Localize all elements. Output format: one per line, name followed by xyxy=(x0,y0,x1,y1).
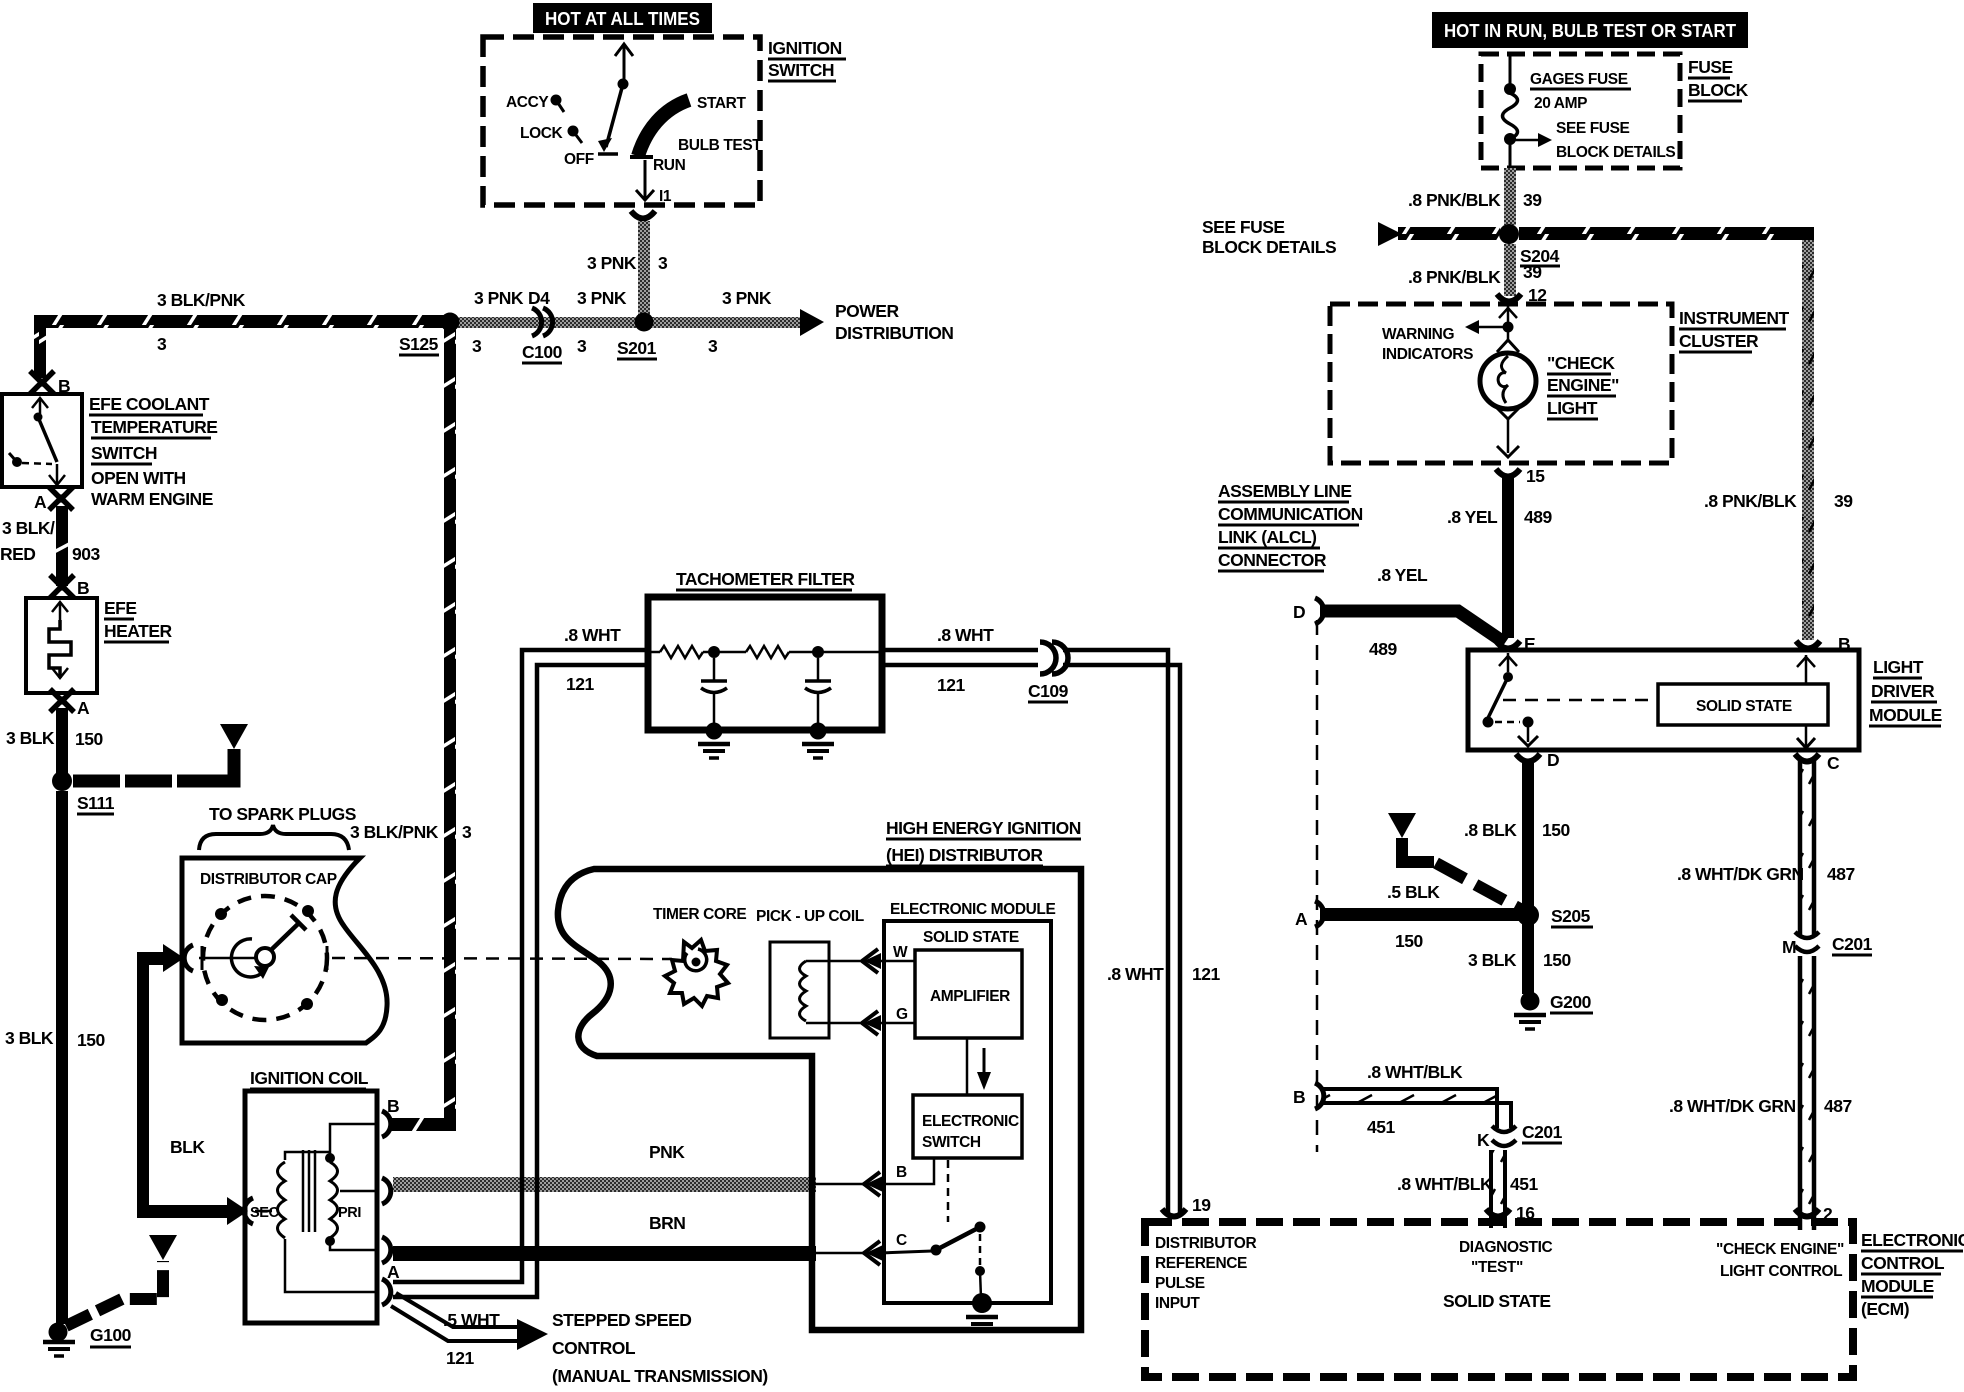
svg-text:B: B xyxy=(1293,1087,1305,1107)
svg-text:121: 121 xyxy=(937,675,965,695)
distributor cap xyxy=(182,858,387,1043)
svg-text:D4: D4 xyxy=(528,288,550,308)
ALCL dashed line xyxy=(1316,620,1319,1152)
connector I1 xyxy=(631,211,655,219)
wire 3 PNK ignition switch to S201 xyxy=(587,221,668,317)
svg-text:.8 YEL: .8 YEL xyxy=(1377,565,1428,585)
electronic switch xyxy=(913,1095,1022,1158)
svg-text:.8 WHT/BLK: .8 WHT/BLK xyxy=(1367,1062,1463,1082)
svg-text:.8 WHT/DK GRN: .8 WHT/DK GRN xyxy=(1677,864,1804,884)
ground G100 xyxy=(43,1323,132,1357)
wire .5 WHT stepped speed control xyxy=(391,1293,768,1386)
node S125 xyxy=(399,313,460,356)
svg-text:G100: G100 xyxy=(90,1325,132,1345)
terminal B ALCL and .8 WHT/BLK wire xyxy=(1293,1062,1511,1137)
svg-text:PNK: PNK xyxy=(649,1142,685,1162)
svg-text:BLOCK DETAILS: BLOCK DETAILS xyxy=(1556,144,1675,161)
connector C light driver xyxy=(1795,753,1840,773)
svg-text:D: D xyxy=(1293,602,1305,622)
wire 3 BLK/PNK vertical S125 to coil xyxy=(350,322,472,1131)
svg-text:.5 WHT: .5 WHT xyxy=(443,1310,500,1330)
instrument cluster box xyxy=(1330,304,1790,463)
svg-text:POWER: POWER xyxy=(835,301,899,321)
connector A EFE heater xyxy=(50,689,90,718)
svg-text:WARNING: WARNING xyxy=(1382,326,1454,343)
electronic module box xyxy=(884,901,1055,1303)
ECM terminal 19 xyxy=(1162,1195,1211,1217)
svg-text:.8 WHT/BLK: .8 WHT/BLK xyxy=(1397,1174,1493,1194)
svg-text:487: 487 xyxy=(1827,864,1855,884)
svg-text:DISTRIBUTION: DISTRIBUTION xyxy=(835,323,953,343)
timer core xyxy=(653,906,746,1006)
svg-text:451: 451 xyxy=(1367,1117,1395,1137)
ECM labels xyxy=(1861,1230,1964,1319)
ALCL connector labels xyxy=(1218,481,1363,571)
svg-text:121: 121 xyxy=(446,1348,474,1368)
svg-text:INSTRUMENT: INSTRUMENT xyxy=(1679,308,1790,328)
wire .8 YEL cluster to E xyxy=(1447,478,1552,638)
svg-text:D: D xyxy=(1547,750,1559,770)
svg-text:SWITCH: SWITCH xyxy=(768,60,834,80)
svg-text:C: C xyxy=(1827,753,1840,773)
svg-text:150: 150 xyxy=(77,1030,105,1050)
check engine bulb xyxy=(1480,327,1619,457)
svg-text:B: B xyxy=(387,1096,399,1116)
G100 branch wire xyxy=(66,1235,177,1326)
node S201 xyxy=(617,313,657,360)
svg-text:LINK (ALCL): LINK (ALCL) xyxy=(1218,527,1317,547)
capacitor C2 xyxy=(802,658,834,758)
svg-text:M: M xyxy=(1782,937,1796,957)
svg-text:HOT IN RUN, BULB TEST OR START: HOT IN RUN, BULB TEST OR START xyxy=(1444,21,1736,41)
svg-text:C: C xyxy=(896,1232,907,1249)
svg-text:IGNITION: IGNITION xyxy=(768,38,842,58)
svg-text:SOLID STATE: SOLID STATE xyxy=(1696,698,1792,715)
wire 3 PNK power distribution xyxy=(452,288,953,356)
svg-text:.5 BLK: .5 BLK xyxy=(1387,882,1440,902)
svg-text:DIAGNOSTIC: DIAGNOSTIC xyxy=(1459,1239,1553,1256)
connector 12 cluster xyxy=(1497,294,1521,302)
coil terminal A xyxy=(382,1262,400,1305)
svg-text:SOLID STATE: SOLID STATE xyxy=(1443,1291,1551,1311)
capacitor C1 xyxy=(698,658,730,758)
svg-text:K: K xyxy=(1477,1130,1490,1150)
svg-text:ASSEMBLY LINE: ASSEMBLY LINE xyxy=(1218,481,1352,501)
svg-text:20 AMP: 20 AMP xyxy=(1534,95,1587,112)
connector A EFE switch xyxy=(34,487,73,512)
svg-text:SOLID STATE: SOLID STATE xyxy=(923,929,1019,946)
svg-text:3 BLK: 3 BLK xyxy=(1468,950,1517,970)
svg-text:A: A xyxy=(1295,909,1308,929)
coil terminal PNK xyxy=(382,1178,391,1204)
wire .8 WHT tach filter to coil (outline pair) xyxy=(393,625,648,1297)
svg-text:COMMUNICATION: COMMUNICATION xyxy=(1218,504,1363,524)
svg-text:LIGHT: LIGHT xyxy=(1547,398,1598,418)
svg-text:39: 39 xyxy=(1834,491,1853,511)
svg-text:OPEN WITH: OPEN WITH xyxy=(91,468,186,488)
svg-text:ELECTRONIC: ELECTRONIC xyxy=(1861,1230,1964,1250)
svg-text:DRIVER: DRIVER xyxy=(1871,681,1935,701)
svg-text:.8 YEL: .8 YEL xyxy=(1447,507,1498,527)
pick-up coil xyxy=(756,908,864,1038)
svg-text:SEC: SEC xyxy=(250,1205,280,1221)
svg-text:.8 PNK/BLK: .8 PNK/BLK xyxy=(1408,267,1501,287)
svg-text:487: 487 xyxy=(1824,1096,1852,1116)
svg-text:121: 121 xyxy=(566,674,594,694)
svg-text:S111: S111 xyxy=(77,793,115,813)
HEI distributor outline xyxy=(558,818,1081,1330)
svg-text:B: B xyxy=(77,578,89,598)
svg-text:A: A xyxy=(387,1262,400,1282)
coil terminal B xyxy=(382,1096,399,1137)
tach filter internals xyxy=(648,646,882,658)
svg-text:ACCY: ACCY xyxy=(506,94,549,111)
wire PNK coil to module xyxy=(393,1142,866,1192)
dashed link switch xyxy=(947,1160,950,1222)
connector C109 xyxy=(1028,642,1069,702)
wire .8 PNK/BLK fuse to S204 xyxy=(1408,168,1542,225)
wire 3 BLK/PNK horizontal xyxy=(34,290,444,378)
svg-text:3 BLK: 3 BLK xyxy=(5,1028,54,1048)
svg-text:3: 3 xyxy=(577,336,587,356)
svg-text:3 PNK: 3 PNK xyxy=(722,288,772,308)
wire .8 WHT tach filter to ECM (outline pair) xyxy=(882,625,1220,1214)
node S204 xyxy=(1499,224,1560,266)
svg-text:.8 BLK: .8 BLK xyxy=(1464,820,1517,840)
svg-text:PICK - UP COIL: PICK - UP COIL xyxy=(756,908,864,925)
TO SPARK PLUGS label xyxy=(199,804,356,850)
connector D light driver xyxy=(1516,750,1559,770)
S205 branch wire xyxy=(1388,813,1522,910)
terminal D ALCL and .8 YEL wire xyxy=(1293,565,1505,659)
svg-text:PRI: PRI xyxy=(338,1205,361,1221)
svg-text:EFE: EFE xyxy=(104,598,137,618)
svg-text:SWITCH: SWITCH xyxy=(91,443,157,463)
svg-text:RED: RED xyxy=(0,544,35,564)
svg-text:LIGHT: LIGHT xyxy=(1873,657,1924,677)
svg-text:TEMPERATURE: TEMPERATURE xyxy=(91,417,217,437)
svg-text:CONTROL: CONTROL xyxy=(1861,1253,1945,1273)
connector M C201 xyxy=(1782,932,1873,957)
svg-text:HOT AT ALL TIMES: HOT AT ALL TIMES xyxy=(545,9,700,29)
svg-text:"TEST": "TEST" xyxy=(1471,1259,1523,1276)
svg-text:BLOCK: BLOCK xyxy=(1688,80,1749,100)
svg-text:MODULE: MODULE xyxy=(1861,1276,1934,1296)
svg-text:"CHECK ENGINE": "CHECK ENGINE" xyxy=(1716,1241,1844,1258)
wire BRN coil to module xyxy=(393,1213,866,1261)
header HOT AT ALL TIMES xyxy=(533,3,712,33)
svg-text:(HEI) DISTRIBUTOR: (HEI) DISTRIBUTOR xyxy=(886,845,1043,865)
svg-text:150: 150 xyxy=(1395,931,1423,951)
svg-text:G200: G200 xyxy=(1550,992,1592,1012)
wire .8 WHT/DK GRN C to C201 xyxy=(1677,757,1855,936)
wire .8 PNK/BLK S204 to light driver B xyxy=(1519,227,1853,640)
svg-text:G: G xyxy=(896,1006,908,1023)
svg-text:A: A xyxy=(34,492,47,512)
tachometer filter xyxy=(648,569,882,730)
svg-text:PULSE: PULSE xyxy=(1155,1275,1205,1292)
connector B EFE switch xyxy=(30,371,70,396)
wire BLK coil to distributor cap xyxy=(137,944,248,1225)
svg-text:451: 451 xyxy=(1510,1174,1538,1194)
S111 branch wire xyxy=(73,724,248,781)
gages fuse xyxy=(1503,54,1676,172)
ignition switch box xyxy=(483,37,846,205)
svg-text:OFF: OFF xyxy=(564,151,594,168)
svg-text:S201: S201 xyxy=(617,338,657,358)
svg-text:150: 150 xyxy=(75,729,103,749)
terminal A ALCL and .5 BLK wire xyxy=(1295,882,1520,951)
wire .8 PNK/BLK S204 to cluster xyxy=(1408,244,1547,305)
svg-text:3 PNK: 3 PNK xyxy=(577,288,627,308)
svg-text:FUSE: FUSE xyxy=(1688,57,1733,77)
terminal G xyxy=(862,1006,915,1035)
connector B light driver xyxy=(1796,634,1850,654)
svg-text:LIGHT CONTROL: LIGHT CONTROL xyxy=(1720,1263,1842,1280)
dashed rotor line to timer core xyxy=(332,958,672,959)
svg-text:TO SPARK PLUGS: TO SPARK PLUGS xyxy=(209,804,356,824)
svg-text:.8 WHT: .8 WHT xyxy=(937,625,994,645)
svg-text:.8 WHT: .8 WHT xyxy=(564,625,621,645)
svg-text:3 BLK/PNK: 3 BLK/PNK xyxy=(157,290,246,310)
connector E xyxy=(1496,634,1535,654)
svg-text:CLUSTER: CLUSTER xyxy=(1679,331,1759,351)
svg-text:START: START xyxy=(697,95,746,112)
svg-text:SEE FUSE: SEE FUSE xyxy=(1202,217,1285,237)
svg-text:A: A xyxy=(77,698,90,718)
svg-text:.8 PNK/BLK: .8 PNK/BLK xyxy=(1408,190,1501,210)
svg-text:B: B xyxy=(896,1164,907,1181)
svg-text:RUN: RUN xyxy=(653,157,686,174)
svg-text:C100: C100 xyxy=(522,342,563,362)
svg-text:(ECM): (ECM) xyxy=(1861,1299,1909,1319)
EFE heater xyxy=(26,598,173,693)
svg-text:AMPLIFIER: AMPLIFIER xyxy=(930,988,1010,1005)
svg-text:3 BLK: 3 BLK xyxy=(6,728,55,748)
svg-text:3: 3 xyxy=(472,336,482,356)
svg-text:489: 489 xyxy=(1524,507,1552,527)
arrow amplifier to switch xyxy=(967,1038,991,1095)
svg-text:DISTRIBUTOR: DISTRIBUTOR xyxy=(1155,1235,1256,1252)
svg-text:3: 3 xyxy=(708,336,718,356)
svg-text:WARM ENGINE: WARM ENGINE xyxy=(91,489,213,509)
svg-text:IGNITION COIL: IGNITION COIL xyxy=(250,1068,369,1088)
node S205 xyxy=(1517,904,1593,927)
svg-text:HEATER: HEATER xyxy=(104,621,173,641)
svg-text:903: 903 xyxy=(72,544,100,564)
svg-text:3 BLK/PNK: 3 BLK/PNK xyxy=(350,822,439,842)
amplifier xyxy=(915,950,1022,1038)
svg-text:150: 150 xyxy=(1543,950,1571,970)
warning indicators arrow xyxy=(1382,306,1517,363)
svg-text:ELECTRONIC MODULE: ELECTRONIC MODULE xyxy=(890,901,1055,918)
svg-text:.8 PNK/BLK: .8 PNK/BLK xyxy=(1704,491,1797,511)
svg-text:19: 19 xyxy=(1192,1195,1211,1215)
svg-text:S125: S125 xyxy=(399,334,439,354)
svg-text:TIMER CORE: TIMER CORE xyxy=(653,906,746,923)
svg-text:ENGINE": ENGINE" xyxy=(1547,375,1619,395)
svg-text:HIGH ENERGY IGNITION: HIGH ENERGY IGNITION xyxy=(886,818,1081,838)
svg-text:TACHOMETER FILTER: TACHOMETER FILTER xyxy=(676,569,855,589)
svg-text:CONTROL: CONTROL xyxy=(552,1338,636,1358)
wire 3 BLK/RED 903 xyxy=(0,506,100,586)
header HOT IN RUN BULB TEST OR START xyxy=(1432,12,1748,48)
connector B EFE heater xyxy=(50,575,89,598)
svg-text:REFERENCE: REFERENCE xyxy=(1155,1255,1247,1272)
wire 3 BLK 150 S205 to G200 xyxy=(1468,921,1571,994)
svg-text:ELECTRONIC: ELECTRONIC xyxy=(922,1113,1019,1130)
svg-text:W: W xyxy=(893,944,908,961)
fuse block box xyxy=(1481,54,1749,168)
ignition coil xyxy=(244,1068,378,1323)
wire 3 BLK 150 to S111 xyxy=(6,708,103,774)
svg-text:489: 489 xyxy=(1369,639,1397,659)
ground G200 xyxy=(1514,992,1593,1030)
svg-text:3: 3 xyxy=(462,822,472,842)
svg-text:C201: C201 xyxy=(1832,934,1873,954)
svg-text:3: 3 xyxy=(157,334,167,354)
ECM terminal 16 xyxy=(1486,1203,1535,1223)
ignition switch contacts xyxy=(506,44,762,205)
svg-text:C201: C201 xyxy=(1522,1122,1563,1142)
svg-text:BLOCK DETAILS: BLOCK DETAILS xyxy=(1202,237,1336,257)
svg-text:MODULE: MODULE xyxy=(1869,705,1942,725)
svg-text:121: 121 xyxy=(1192,964,1220,984)
svg-text:SEE FUSE: SEE FUSE xyxy=(1556,120,1630,137)
terminal W xyxy=(862,944,915,973)
light driver module box xyxy=(1468,650,1942,750)
ECM terminal 2 xyxy=(1795,1204,1833,1224)
svg-text:15: 15 xyxy=(1526,466,1545,486)
svg-text:BLK: BLK xyxy=(170,1137,205,1157)
svg-text:SWITCH: SWITCH xyxy=(922,1134,981,1151)
svg-text:EFE COOLANT: EFE COOLANT xyxy=(89,394,210,414)
svg-text:STEPPED SPEED: STEPPED SPEED xyxy=(552,1310,691,1330)
svg-text:3 BLK/: 3 BLK/ xyxy=(2,518,55,538)
svg-text:GAGES FUSE: GAGES FUSE xyxy=(1530,71,1628,88)
light driver internals xyxy=(1483,653,1829,748)
wire .8 WHT/BLK C201 to ECM 16 xyxy=(1397,1150,1538,1228)
svg-text:INDICATORS: INDICATORS xyxy=(1382,346,1473,363)
svg-text:I1: I1 xyxy=(659,188,672,205)
node S111 xyxy=(52,771,115,814)
svg-text:.8 WHT: .8 WHT xyxy=(1107,964,1164,984)
svg-text:.8 WHT/DK GRN: .8 WHT/DK GRN xyxy=(1669,1096,1796,1116)
coil terminal BRN xyxy=(382,1237,391,1263)
svg-text:39: 39 xyxy=(1523,262,1542,282)
wire .8 BLK 150 D to S205 xyxy=(1464,762,1570,908)
terminal C elec module and ground switch xyxy=(864,1222,998,1332)
connector K C201 xyxy=(1477,1122,1563,1150)
svg-text:BULB TEST: BULB TEST xyxy=(678,137,762,154)
wire .8 WHT/DK GRN C201 to ECM 2 xyxy=(1669,956,1852,1230)
svg-text:"CHECK: "CHECK xyxy=(1547,353,1615,373)
svg-text:S205: S205 xyxy=(1551,906,1591,926)
svg-text:CONNECTOR: CONNECTOR xyxy=(1218,550,1327,570)
connector 15 xyxy=(1496,466,1545,486)
svg-text:39: 39 xyxy=(1523,190,1542,210)
terminal B elec module xyxy=(864,1158,934,1196)
svg-text:DISTRIBUTOR CAP: DISTRIBUTOR CAP xyxy=(200,871,337,888)
see fuse block details arrow xyxy=(1202,217,1500,257)
svg-text:150: 150 xyxy=(1542,820,1570,840)
svg-text:BRN: BRN xyxy=(649,1213,685,1233)
ECM box xyxy=(1145,1222,1853,1377)
svg-text:3 PNK: 3 PNK xyxy=(474,288,524,308)
svg-text:LOCK: LOCK xyxy=(520,125,564,142)
svg-text:C109: C109 xyxy=(1028,681,1069,701)
svg-text:INPUT: INPUT xyxy=(1155,1295,1200,1312)
svg-text:3 PNK: 3 PNK xyxy=(587,253,637,273)
svg-text:3: 3 xyxy=(658,253,668,273)
connector C100 xyxy=(522,308,563,363)
svg-text:(MANUAL TRANSMISSION): (MANUAL TRANSMISSION) xyxy=(552,1366,768,1386)
wire 3 BLK 150 to G100 xyxy=(5,791,105,1324)
EFE coolant temperature switch xyxy=(2,394,217,509)
